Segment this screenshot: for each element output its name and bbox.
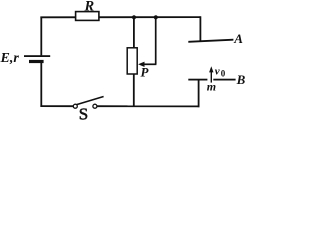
junction dot (pot top lead on top wire) xyxy=(132,15,136,19)
svg-text:A: A xyxy=(233,31,243,46)
wire wiper vertical (top wire down) xyxy=(155,17,157,65)
wire potentiometer bottom lead xyxy=(133,74,135,108)
wire A stem (top wire down to plate A) xyxy=(199,16,201,42)
switch S lever xyxy=(77,97,104,105)
wire top horizontal xyxy=(40,16,200,18)
plate B right segment xyxy=(213,79,235,81)
battery E1 long plate xyxy=(24,55,50,57)
potentiometer P box xyxy=(127,48,137,74)
svg-text:S: S xyxy=(79,105,88,124)
wire bottom left (battery to switch) xyxy=(40,105,73,107)
junction dot (wiper lead on top wire) xyxy=(154,15,158,19)
svg-text:v: v xyxy=(215,66,220,78)
particle velocity arrow v0 (upward through hole in plate B) xyxy=(209,66,213,82)
svg-text:m: m xyxy=(207,79,216,93)
svg-text:B: B xyxy=(236,72,246,87)
wire bottom middle (switch to corner under B) xyxy=(97,105,200,107)
switch S right contact circle xyxy=(93,104,97,108)
switch S left contact circle xyxy=(73,104,77,108)
svg-text:E,r: E,r xyxy=(0,51,19,66)
wire battery bottom lead xyxy=(40,63,42,107)
plate A (top capacitor plate, slight slope) xyxy=(188,39,233,43)
wire potentiometer top lead xyxy=(133,17,135,48)
wire B stem (plate B down to bottom wire) xyxy=(198,80,200,108)
svg-text:P: P xyxy=(141,64,150,79)
plate B left segment xyxy=(188,79,207,81)
battery E1 short thick plate xyxy=(29,60,44,63)
resistor R1 box xyxy=(76,12,99,21)
svg-text:0: 0 xyxy=(221,69,226,79)
svg-text:R: R xyxy=(84,0,95,15)
wire wiper horizontal (to arrow) xyxy=(144,63,157,65)
wire left vertical (battery top lead) xyxy=(40,17,42,56)
potentiometer wiper arrowhead xyxy=(138,62,144,67)
